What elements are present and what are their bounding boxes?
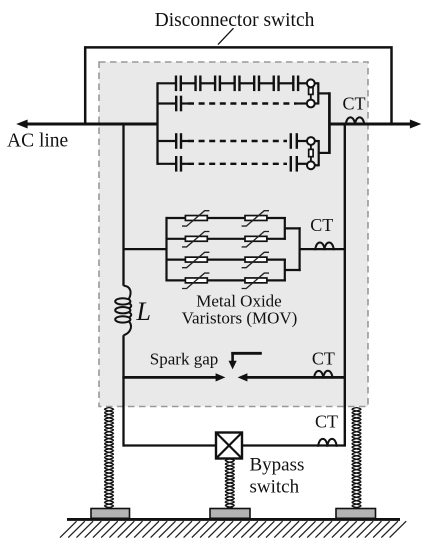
svg-text:CT: CT: [312, 348, 335, 368]
svg-text:CT: CT: [342, 94, 365, 114]
svg-text:switch: switch: [250, 477, 300, 498]
svg-text:L: L: [136, 297, 151, 326]
svg-text:Metal Oxide: Metal Oxide: [196, 291, 281, 310]
svg-text:AC line: AC line: [7, 131, 68, 152]
svg-text:Bypass: Bypass: [250, 454, 305, 475]
svg-text:Spark gap: Spark gap: [150, 349, 218, 368]
svg-text:Disconnector switch: Disconnector switch: [155, 10, 315, 31]
svg-text:Varistors (MOV): Varistors (MOV): [182, 309, 298, 328]
svg-text:CT: CT: [315, 411, 338, 431]
svg-text:CT: CT: [310, 215, 333, 235]
